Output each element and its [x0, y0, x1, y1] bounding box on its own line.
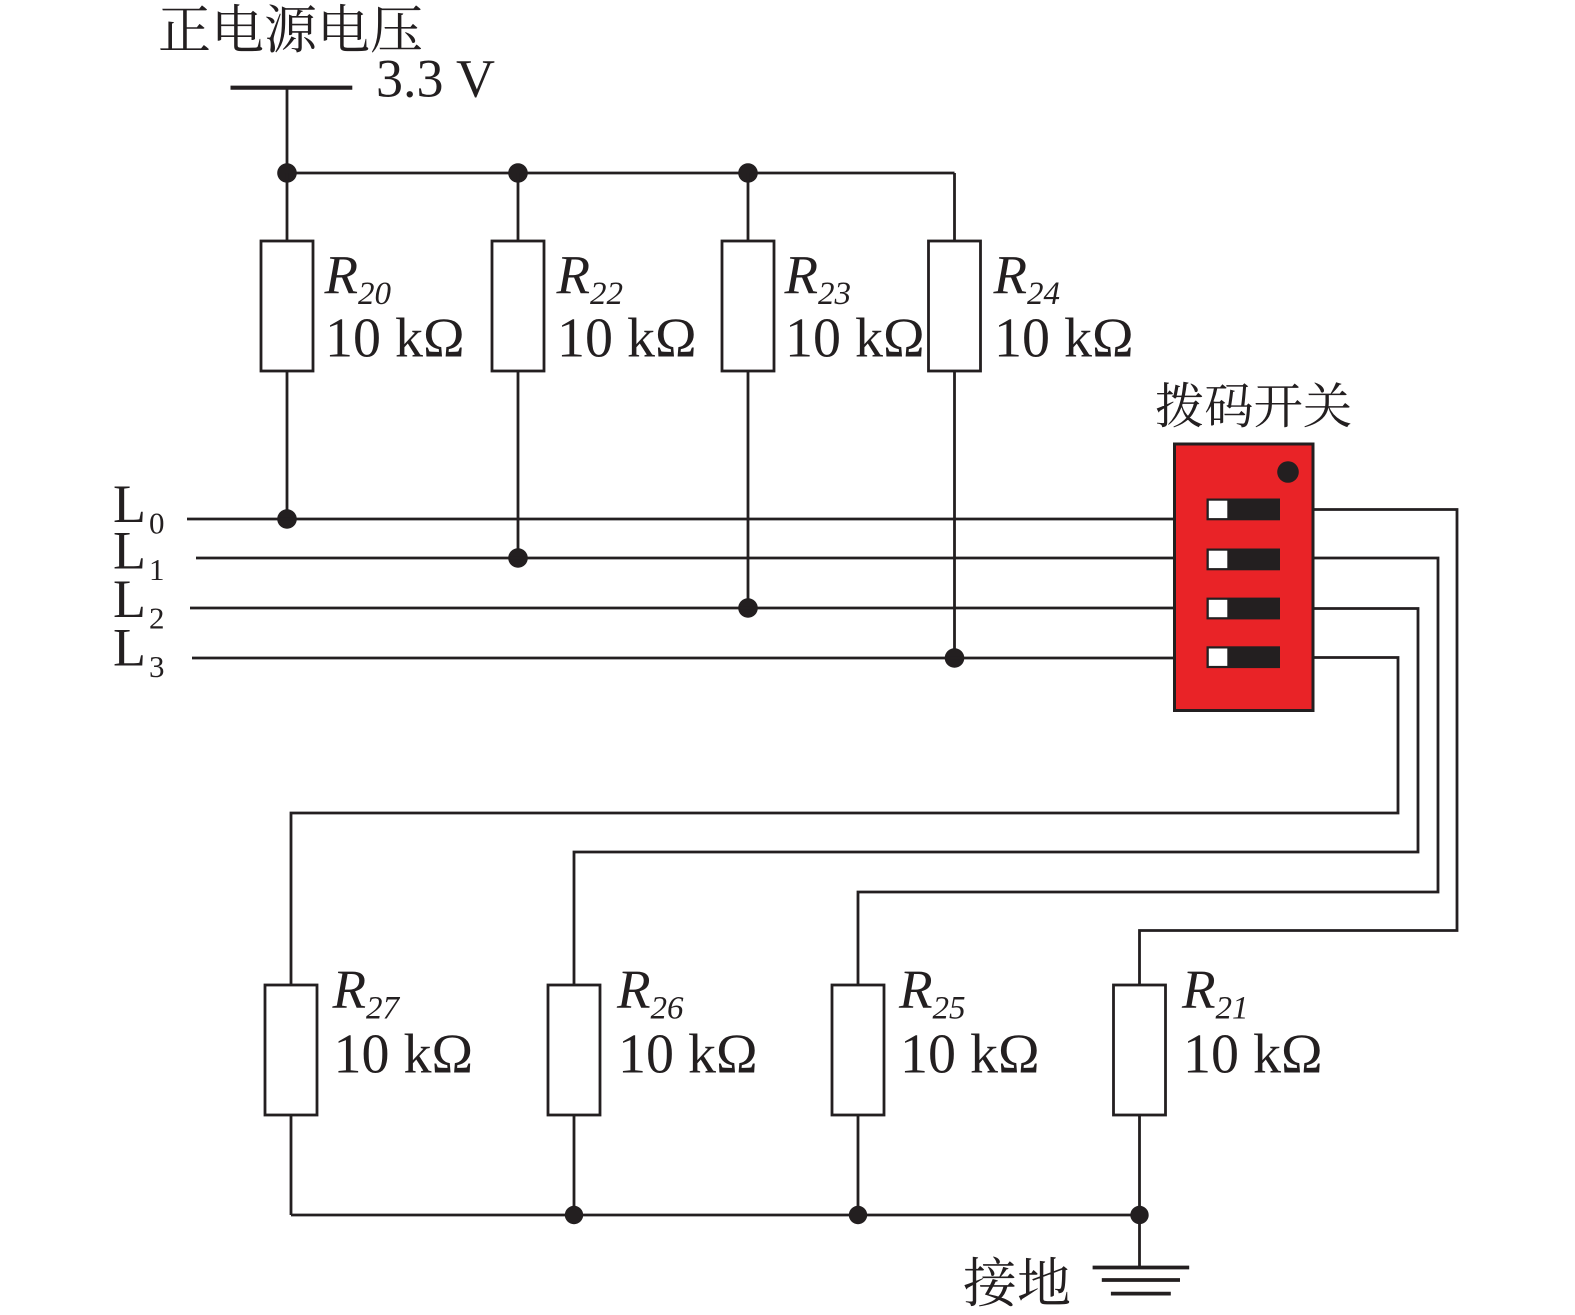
- svg-text:10 kΩ: 10 kΩ: [785, 308, 925, 370]
- wire: R27 to ground bus: [290, 1115, 293, 1215]
- svg-text:R: R: [616, 959, 651, 1020]
- svg-text:27: 27: [366, 991, 401, 1027]
- label: R21 designator: [1181, 959, 1249, 1027]
- label: R20 designator: [324, 245, 392, 313]
- wire: DIP switch output 4 to R27: [291, 658, 1398, 986]
- svg-text:3: 3: [149, 649, 165, 684]
- resistor R21 body: [1114, 985, 1166, 1115]
- svg-text:0: 0: [149, 506, 165, 541]
- wire: top bus to R24: [953, 173, 956, 243]
- wire: R25 to ground bus: [857, 1115, 860, 1215]
- wire: DIP switch output 2 to R25: [858, 558, 1438, 985]
- svg-text:3.3 V: 3.3 V: [376, 49, 495, 109]
- junction: ground bus / R26: [565, 1206, 583, 1224]
- node label: L0: [113, 474, 165, 541]
- power supply 3.3V bar symbol: [231, 86, 353, 90]
- svg-text:R: R: [556, 245, 591, 306]
- wire: top bus to R20: [286, 173, 289, 243]
- resistor R25 body: [832, 985, 884, 1115]
- junction: top bus / R20: [277, 163, 297, 183]
- wire: DIP switch output 3 to R26: [574, 609, 1418, 986]
- top bus wire (3.3V rail): [287, 172, 955, 175]
- svg-text:10 kΩ: 10 kΩ: [1183, 1024, 1323, 1086]
- wire: DIP switch output 1 to R21: [1140, 510, 1458, 986]
- label: R24 designator: [993, 245, 1061, 313]
- resistor R24 body: [929, 241, 981, 371]
- junction: ground bus / R25: [849, 1206, 867, 1224]
- svg-text:21: 21: [1216, 991, 1249, 1027]
- svg-text:R: R: [332, 959, 367, 1020]
- svg-text:1: 1: [149, 552, 165, 587]
- svg-text:R: R: [1181, 959, 1216, 1020]
- label: R26 designator: [616, 959, 684, 1027]
- svg-text:10 kΩ: 10 kΩ: [900, 1024, 1040, 1086]
- label: R27 designator: [332, 959, 401, 1027]
- resistor R23 body: [722, 241, 774, 371]
- wire: net L0 to DIP switch: [187, 518, 1176, 521]
- resistor R22 body: [492, 241, 544, 371]
- junction: R24 / net L3: [945, 648, 965, 668]
- svg-text:R: R: [784, 245, 819, 306]
- label: 正电源电压 (positive supply voltage): [160, 4, 421, 53]
- svg-text:10 kΩ: 10 kΩ: [334, 1024, 474, 1086]
- wire: net L2 to DIP switch: [190, 607, 1176, 610]
- wire: R24 to line L3: [953, 371, 956, 658]
- wire: R23 to line L2: [747, 371, 750, 608]
- svg-text:2: 2: [149, 601, 165, 636]
- wire: bus to ground symbol: [1138, 1215, 1141, 1268]
- svg-text:L: L: [113, 618, 146, 678]
- junction: R23 / net L2: [738, 598, 758, 618]
- svg-text:R: R: [324, 245, 359, 306]
- resistor R26 body: [548, 985, 600, 1115]
- wire: 3.3V bar to top bus: [286, 88, 289, 174]
- svg-text:R: R: [993, 245, 1028, 306]
- resistor R27 body: [265, 985, 317, 1115]
- svg-text:25: 25: [933, 991, 966, 1027]
- label: 接地 (ground): [964, 1256, 1069, 1306]
- wire: net L3 to DIP switch: [192, 657, 1176, 660]
- ground bus wire: [291, 1214, 1140, 1217]
- wire: top bus to R22: [517, 173, 520, 243]
- junction: top bus / R23: [738, 163, 758, 183]
- wire: top bus to R23: [747, 173, 750, 243]
- wire: R20 to line L0: [286, 371, 289, 519]
- node label: L2: [113, 569, 165, 636]
- label: R22 designator: [556, 245, 624, 313]
- svg-text:10 kΩ: 10 kΩ: [618, 1024, 758, 1086]
- DIP switch slider 1: [1207, 499, 1281, 521]
- label: 拨码开关 (DIP switch): [1157, 382, 1351, 428]
- label: R23 designator: [784, 245, 852, 313]
- DIP switch pin-1 dot: [1277, 461, 1299, 483]
- DIP switch slider 4: [1207, 646, 1281, 668]
- wire: R21 to ground bus: [1138, 1115, 1141, 1215]
- DIP switch slider 3: [1207, 598, 1281, 620]
- junction: ground bus / R21 / ground: [1130, 1206, 1148, 1224]
- DIP switch body: [1175, 444, 1314, 711]
- wire: R22 to line L1: [517, 371, 520, 558]
- svg-text:10 kΩ: 10 kΩ: [557, 308, 697, 370]
- label: R25 designator: [898, 959, 966, 1027]
- svg-text:10 kΩ: 10 kΩ: [325, 308, 465, 370]
- node label: L1: [113, 521, 165, 588]
- junction: top bus / R22: [508, 163, 528, 183]
- junction: R22 / net L1: [508, 548, 528, 568]
- svg-text:10 kΩ: 10 kΩ: [994, 308, 1134, 370]
- node label: L3: [113, 618, 165, 685]
- DIP switch slider 2: [1207, 549, 1281, 571]
- svg-text:R: R: [898, 959, 933, 1020]
- resistor R20 body: [261, 241, 313, 371]
- junction: R20 / net L0: [277, 509, 297, 529]
- ground symbol: [1093, 1268, 1190, 1294]
- wire: net L1 to DIP switch: [196, 557, 1176, 560]
- wire: R26 to ground bus: [573, 1115, 576, 1215]
- svg-text:26: 26: [651, 991, 685, 1027]
